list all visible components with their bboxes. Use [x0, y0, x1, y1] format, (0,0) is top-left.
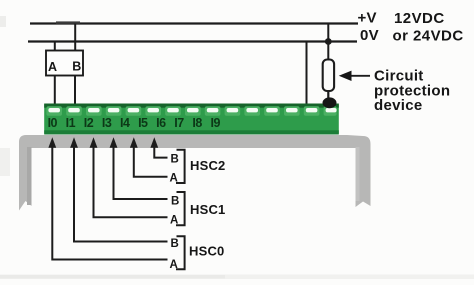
- wire I4 to HSC2 A: [130, 137, 168, 177]
- svg-text:B: B: [171, 154, 179, 166]
- wire I1 to HSC0 B: [70, 137, 167, 241]
- bracket HSC0: [176, 236, 185, 269]
- svg-text:I1: I1: [66, 116, 76, 130]
- wire I3 to HSC1 B: [110, 137, 168, 199]
- svg-text:B: B: [72, 60, 81, 74]
- wire encoder B to terminal I1: [74, 76, 76, 106]
- wire encoder A to terminal I0: [54, 76, 56, 106]
- terminal pockets and screw dashes: [46, 106, 336, 116]
- svg-text:I7: I7: [174, 116, 184, 130]
- svg-text:I3: I3: [102, 116, 112, 130]
- svg-text:I0: I0: [48, 116, 58, 130]
- svg-text:I2: I2: [84, 116, 94, 130]
- svg-text:HSC1: HSC1: [190, 202, 225, 217]
- svg-text:0V: 0V: [360, 27, 379, 44]
- label Circuit protection device: [374, 68, 450, 115]
- wire +V rail: [30, 21, 358, 23]
- bracket HSC1: [176, 192, 185, 225]
- svg-text:or 24VDC: or 24VDC: [393, 28, 464, 45]
- junction dot at 0V crossing: [325, 38, 332, 45]
- svg-text:+V: +V: [358, 10, 377, 27]
- svg-text:I8: I8: [192, 116, 202, 130]
- wire I0 to HSC0 A: [48, 137, 167, 259]
- fuse F1 (circuit protection device): [323, 60, 334, 93]
- encoder U1 (A/B shaft encoder box): [46, 51, 83, 76]
- svg-text:I4: I4: [120, 116, 130, 130]
- svg-text:I5: I5: [138, 116, 148, 130]
- wire encoder output A to 0V rail: [54, 42, 56, 52]
- svg-text:B: B: [171, 196, 179, 208]
- wire I5 to HSC2 B: [150, 137, 167, 157]
- PLC input terminal strip: [44, 104, 339, 135]
- terminal labels I0-I9: [48, 116, 221, 130]
- svg-text:I6: I6: [156, 116, 166, 130]
- PLC chassis bracket (gray): [19, 135, 371, 211]
- svg-text:device: device: [374, 97, 423, 114]
- chassis inner shading left arm: [27, 147, 32, 205]
- svg-text:HSC2: HSC2: [190, 158, 225, 173]
- wire I2 to HSC1 A: [90, 137, 168, 217]
- wire encoder output B to +V rail: [74, 24, 76, 52]
- svg-text:I9: I9: [210, 116, 220, 130]
- svg-text:A: A: [48, 60, 57, 74]
- wire +V rail to fuse: [327, 24, 329, 62]
- svg-text:B: B: [171, 238, 179, 250]
- wire 0V rail: [28, 40, 357, 42]
- wire fuse to terminal strip: [327, 91, 329, 101]
- wire-end blob at strip (fuse feed): [323, 97, 337, 108]
- svg-text:HSC0: HSC0: [189, 244, 224, 259]
- svg-text:12VDC: 12VDC: [394, 10, 445, 27]
- chassis inner shading right arm: [356, 147, 360, 201]
- bracket HSC2: [176, 150, 185, 183]
- wire 0V rail to terminal strip common: [306, 42, 308, 107]
- pointer arrow to fuse: [339, 71, 370, 81]
